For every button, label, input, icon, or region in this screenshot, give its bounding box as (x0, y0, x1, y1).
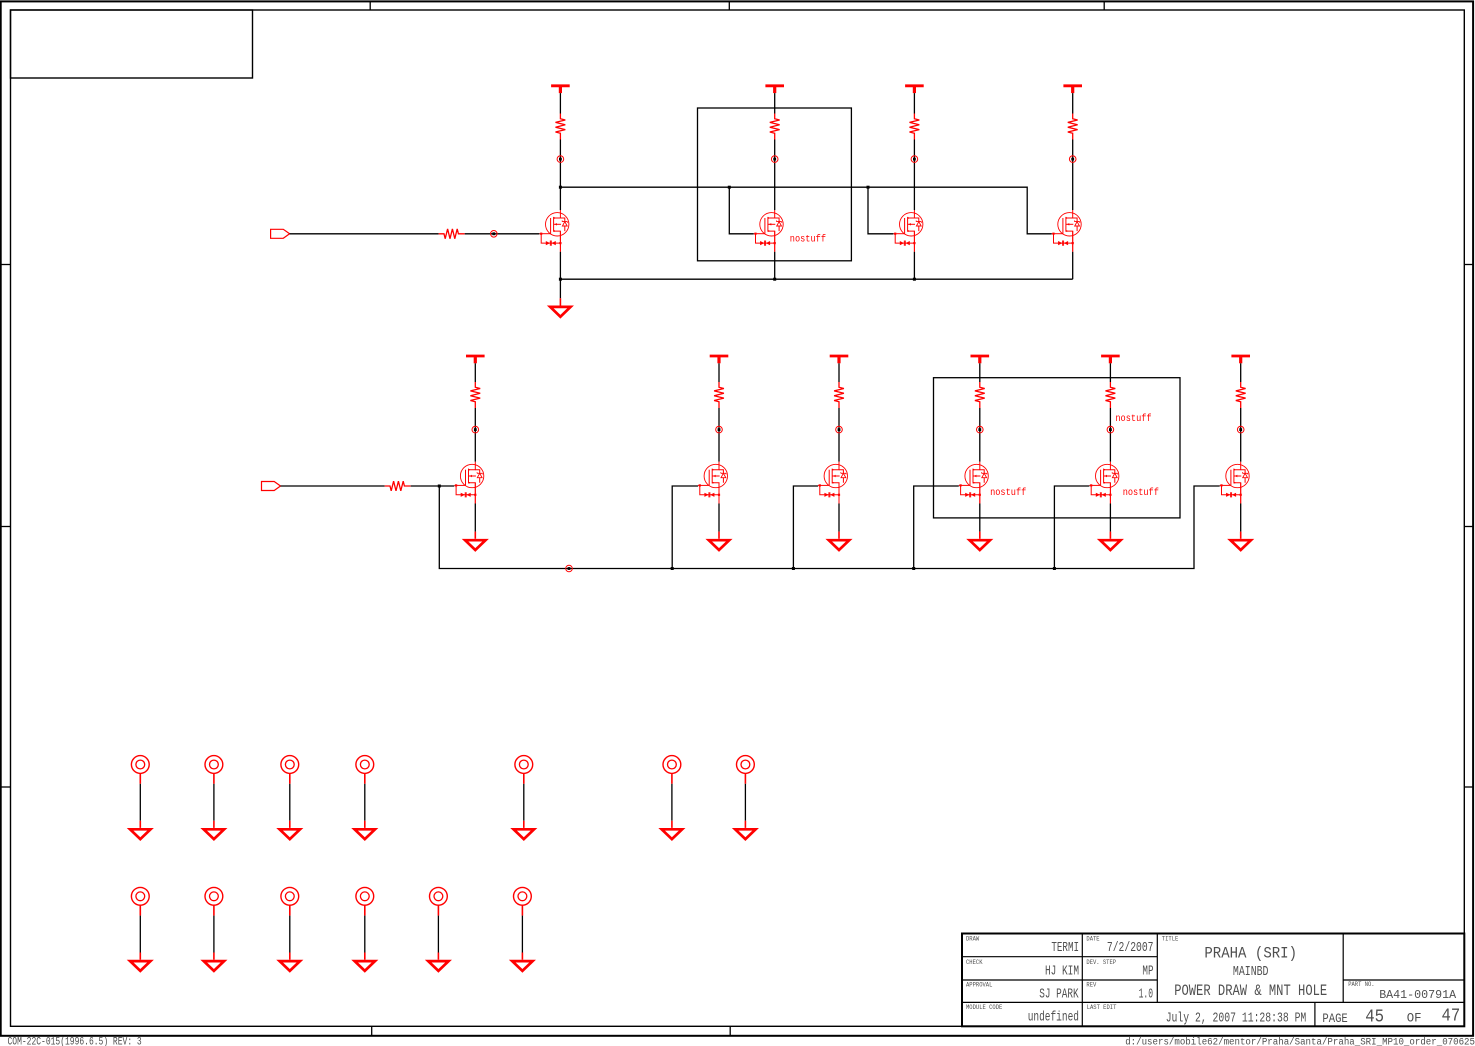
nostuff box around Q2 (698, 108, 852, 261)
transistor Q7 (N-MOSFET with body diode and gate TVS) (818, 462, 848, 504)
ground symbol below MH3 (280, 821, 300, 839)
resistor R3 (pull-up, top row column 3) (910, 114, 920, 140)
svg-text:nostuff: nostuff (990, 487, 1026, 499)
svg-text:MP: MP (1142, 963, 1153, 979)
svg-text:45: 45 (1365, 1007, 1384, 1027)
wire port P2 to series resistor R12 (281, 485, 385, 487)
wire resistor R12 to gate of Q5 (411, 485, 455, 487)
resistor R10 (pull-up, second row column 5) (1106, 382, 1116, 408)
wire mounting hole MH11 to ground (364, 916, 366, 953)
ground symbol below Q10 (1231, 532, 1251, 550)
ground symbol below Q5 (465, 532, 485, 550)
mounting hole MH1 (131, 756, 149, 784)
svg-text:TERMI: TERMI (1051, 940, 1079, 956)
svg-text:BA41-00791A: BA41-00791A (1379, 988, 1457, 1002)
pin node circle on drain wire of Q6 (716, 426, 723, 433)
transistor Q6 (N-MOSFET with body diode and gate TVS) (698, 462, 728, 504)
pin node circle on drain wire of Q1 (557, 156, 564, 163)
transistor Q3 (N-MOSFET with body diode and gate TVS) (893, 210, 923, 252)
svg-text:PART NO.: PART NO. (1348, 981, 1374, 988)
wire mounting hole MH1 to ground (139, 784, 141, 821)
wire: riser to gate of Q3 (868, 187, 893, 234)
resistor R6 (pull-up, second row column 1) (470, 382, 480, 408)
ground symbol below Q7 (829, 532, 849, 550)
power bar symbol (second row column 2) (710, 356, 729, 363)
ground symbol below MH5 (514, 821, 534, 839)
junction on drain bus at Q2 riser (728, 186, 731, 189)
wire source of Q8 to ground (979, 504, 981, 532)
svg-text:DEV. STEP: DEV. STEP (1086, 959, 1116, 966)
resistor R7 (pull-up, second row column 2) (714, 382, 724, 408)
wire: riser to gate of Q6 (672, 486, 698, 569)
wire power to resistor R9 (979, 363, 981, 382)
ground symbol below Q9 (1100, 532, 1120, 550)
wire source of Q5 to ground (474, 504, 476, 532)
svg-text:d:/users/mobile62/mentor/Praha: d:/users/mobile62/mentor/Praha/Santa/Pra… (1125, 1036, 1475, 1046)
svg-text:nostuff: nostuff (1115, 413, 1151, 425)
ground symbol below MH10 (280, 953, 300, 971)
svg-text:HJ KIM: HJ KIM (1045, 963, 1079, 979)
ground symbol below Q8 (970, 532, 990, 550)
wire power to resistor R6 (474, 363, 476, 382)
ground symbol below MH6 (662, 821, 682, 839)
ground symbol below MH11 (355, 953, 375, 971)
svg-text:47: 47 (1442, 1006, 1461, 1026)
svg-text:POWER DRAW & MNT HOLE: POWER DRAW & MNT HOLE (1174, 982, 1327, 1000)
svg-text:OF: OF (1407, 1010, 1422, 1025)
wire mounting hole MH6 to ground (671, 784, 673, 821)
mounting hole MH11 (356, 887, 374, 915)
transistor Q5 (N-MOSFET with body diode and gate TVS) (454, 462, 484, 504)
wire: riser to gate of Q2 (729, 187, 753, 234)
wire resistor R9 to drain of Q8 (979, 408, 981, 462)
wire mounting hole MH7 to ground (744, 784, 746, 821)
junction on gate bus at Q8 riser (912, 567, 915, 570)
resistor R9 (pull-up, second row column 4) (975, 382, 985, 408)
junction on drain bus at Q3 riser (867, 186, 870, 189)
power bar symbol (top row column 4) (1063, 86, 1082, 93)
junction at Q3 source / bus (913, 278, 916, 281)
mounting hole MH2 (205, 756, 223, 784)
resistor R11 (pull-up, second row column 6) (1236, 382, 1246, 408)
wire power to resistor R1 (559, 93, 561, 113)
junction at Q2 source / bus (773, 278, 776, 281)
svg-text:nostuff: nostuff (1123, 487, 1159, 499)
wire mounting hole MH8 to ground (139, 916, 141, 953)
wire resistor R5 to gate of Q1 (465, 233, 540, 235)
input port P2 (second row gate input) (262, 482, 281, 491)
wire power to resistor R11 (1240, 363, 1242, 382)
svg-text:undefined: undefined (1028, 1010, 1079, 1026)
title block labels and values (966, 936, 1460, 1028)
svg-text:PRAHA (SRI): PRAHA (SRI) (1204, 944, 1297, 962)
ground symbol below MH1 (130, 821, 150, 839)
mounting hole MH7 (737, 756, 755, 784)
wire: top-row source bus (560, 278, 1072, 280)
wire source of Q9 to ground (1109, 504, 1111, 532)
series gate resistor R12 (385, 481, 411, 491)
wire: riser to gate of Q9 (1054, 486, 1089, 569)
pin node circle on drain wire of Q5 (472, 426, 479, 433)
ground symbol below MH7 (735, 821, 755, 839)
ground symbol below Q6 (709, 532, 729, 550)
svg-text:nostuff: nostuff (790, 233, 826, 245)
svg-text:MAINBD: MAINBD (1233, 965, 1269, 980)
power bar symbol (second row column 5) (1101, 356, 1120, 363)
wire mounting hole MH12 to ground (437, 916, 439, 953)
wire resistor R2 to drain of Q2 (774, 140, 776, 211)
wire resistor R1 to drain of Q1 (559, 140, 561, 211)
wire power to resistor R8 (838, 363, 840, 382)
wire: second-row gate bus (439, 486, 1219, 569)
mounting hole MH4 (356, 756, 374, 784)
wire resistor R4 to drain of Q4 (1072, 140, 1074, 211)
pin node circle on drain wire of Q7 (836, 426, 843, 433)
junction on gate bus at Q9 riser (1053, 567, 1056, 570)
svg-text:SJ PARK: SJ PARK (1039, 986, 1079, 1002)
wire port P1 to series resistor R5 (290, 233, 439, 235)
wire mounting hole MH13 to ground (521, 916, 523, 953)
wire source of Q4 down to source bus (1072, 252, 1074, 279)
ground symbol below MH13 (512, 953, 532, 971)
junction on gate bus at Q7 riser (792, 567, 795, 570)
wire source of Q3 down to source bus (913, 252, 915, 279)
junction at Q1 source / bus (559, 278, 562, 281)
wire source of Q6 to ground (718, 504, 720, 532)
svg-text:DATE: DATE (1086, 936, 1099, 943)
title block (962, 934, 1464, 1027)
wire resistor R10 to drain of Q9 (1109, 408, 1111, 462)
wire mounting hole MH10 to ground (289, 916, 291, 953)
mounting hole MH3 (281, 756, 299, 784)
transistor Q8 (N-MOSFET with body diode and gate TVS) (959, 462, 989, 504)
wire power to resistor R7 (718, 363, 720, 382)
svg-text:CHECK: CHECK (966, 959, 983, 966)
wire mounting hole MH3 to ground (289, 784, 291, 821)
junction on gate bus at Q6 riser (671, 567, 674, 570)
mounting hole MH9 (205, 887, 223, 915)
pin node circle on gate wire of Q1 (491, 231, 498, 238)
pin node circle on second-row gate bus (566, 565, 573, 572)
transistor Q1 (N-MOSFET with body diode and gate TVS) (539, 210, 569, 252)
svg-text:APPROVAL: APPROVAL (966, 982, 992, 989)
input port P1 (top row gate input) (271, 229, 290, 238)
svg-text:REV: REV (1086, 982, 1096, 989)
wire source of Q1 down to source bus (559, 252, 561, 279)
wire Q1 source bus to ground (559, 279, 561, 298)
wire power to resistor R3 (913, 93, 915, 113)
series gate resistor R5 (439, 229, 465, 239)
wire: riser to gate of Q7 (793, 486, 818, 569)
mounting hole MH12 (430, 887, 448, 915)
power bar symbol (second row column 6) (1231, 356, 1250, 363)
junction at Q1 drain / bus (559, 186, 562, 189)
svg-text:TITLE: TITLE (1162, 936, 1179, 943)
power bar symbol (second row column 1) (466, 356, 485, 363)
wire resistor R8 to drain of Q7 (838, 408, 840, 462)
mounting hole MH13 (514, 887, 532, 915)
transistor Q2 (N-MOSFET with body diode and gate TVS) (754, 210, 784, 252)
svg-text:1.0: 1.0 (1139, 986, 1153, 1002)
resistor R8 (pull-up, second row column 3) (834, 382, 844, 408)
wire source of Q2 down to source bus (774, 252, 776, 279)
resistor R2 (pull-up, top row column 2) (770, 114, 780, 140)
transistor Q9 (N-MOSFET with body diode and gate TVS) (1089, 462, 1119, 504)
wire resistor R6 to drain of Q5 (474, 408, 476, 462)
wire mounting hole MH2 to ground (213, 784, 215, 821)
transistor Q10 (N-MOSFET with body diode and gate TVS) (1220, 462, 1250, 504)
mounting hole MH8 (131, 887, 149, 915)
svg-text:COM-22C-015(1996.6.5) REV: 3: COM-22C-015(1996.6.5) REV: 3 (8, 1036, 142, 1046)
wire power to resistor R2 (774, 93, 776, 113)
wire source of Q10 to ground (1240, 504, 1242, 532)
wire: top-row drain bus from Q1 drain (560, 187, 1051, 234)
pin node circle on drain wire of Q9 (1107, 426, 1114, 433)
power bar symbol (second row column 4) (971, 356, 990, 363)
svg-text:PAGE: PAGE (1322, 1011, 1348, 1026)
wire mounting hole MH5 to ground (523, 784, 525, 821)
ground symbol below MH9 (204, 953, 224, 971)
power bar symbol (top row column 1) (551, 86, 570, 93)
power bar symbol (top row column 3) (905, 86, 924, 93)
wire resistor R7 to drain of Q6 (718, 408, 720, 462)
nostuff box around Q8 and Q9 (934, 378, 1181, 518)
junction at gate of Q5 / bus drop (438, 485, 441, 488)
wire source of Q7 to ground (838, 504, 840, 532)
svg-text:DRAW: DRAW (966, 936, 979, 943)
ground symbol below MH4 (355, 821, 375, 839)
svg-text:MODULE CODE: MODULE CODE (966, 1004, 1002, 1011)
wire mounting hole MH9 to ground (213, 916, 215, 953)
ground symbol below MH2 (204, 821, 224, 839)
pin node circle on drain wire of Q8 (977, 426, 984, 433)
wire: riser to gate of Q8 (914, 486, 959, 569)
mounting hole MH6 (663, 756, 681, 784)
svg-text:LAST EDIT: LAST EDIT (1087, 1004, 1117, 1011)
pin node circle on drain wire of Q2 (771, 156, 778, 163)
transistor Q4 (N-MOSFET with body diode and gate TVS) (1052, 210, 1082, 252)
resistor R4 (pull-up, top row column 4) (1068, 114, 1078, 140)
wire resistor R11 to drain of Q10 (1240, 408, 1242, 462)
ground symbol below MH8 (130, 953, 150, 971)
power bar symbol (top row column 2) (765, 86, 784, 93)
pin node circle on drain wire of Q3 (911, 156, 918, 163)
svg-text:7/2/2007: 7/2/2007 (1107, 940, 1154, 956)
wire mounting hole MH4 to ground (364, 784, 366, 821)
mounting hole MH10 (281, 887, 299, 915)
ground symbol below Q1 (550, 298, 570, 316)
wire power to resistor R10 (1109, 363, 1111, 382)
wire power to resistor R4 (1072, 93, 1074, 113)
resistor R1 (pull-up, top row column 1) (556, 114, 566, 140)
mounting hole MH5 (515, 756, 533, 784)
ground symbol below MH12 (428, 953, 448, 971)
pin node circle on drain wire of Q4 (1069, 156, 1076, 163)
svg-text:July 2, 2007 11:28:38 PM: July 2, 2007 11:28:38 PM (1166, 1010, 1307, 1026)
pin node circle on drain wire of Q10 (1237, 426, 1244, 433)
wire resistor R3 to drain of Q3 (913, 140, 915, 211)
power bar symbol (second row column 3) (830, 356, 849, 363)
